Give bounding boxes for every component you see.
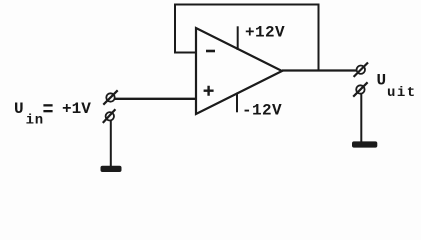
wire input [115,98,197,100]
ground right [352,141,377,147]
svg-text:+1V: +1V [62,100,91,118]
svg-text:U: U [14,100,24,118]
wire -12V supply stub [236,93,238,113]
ground left [101,166,122,172]
terminal input [103,90,117,104]
wire inverting input [174,52,196,54]
label U_in = +1V [14,100,91,129]
wire to ground left [110,121,112,167]
wire feedback left vertical [174,5,176,53]
svg-text:-12V: -12V [242,101,282,119]
terminal output [354,63,368,77]
label op-amp plus input [204,86,214,96]
wire to ground right [360,94,362,142]
terminal input ground side [103,109,116,123]
wire output [282,69,357,71]
label op-amp minus input [206,50,215,53]
terminal output ground side [353,82,367,96]
svg-text:uit: uit [387,85,417,101]
wire +12V supply stub [237,26,239,50]
wire feedback top [174,4,320,6]
svg-text:U: U [377,72,387,90]
svg-text:in: in [26,113,44,129]
op-amp U1 [196,28,282,114]
label U_uit [377,72,417,102]
svg-text:+12V: +12V [245,23,285,41]
wire feedback right vertical [318,4,320,71]
